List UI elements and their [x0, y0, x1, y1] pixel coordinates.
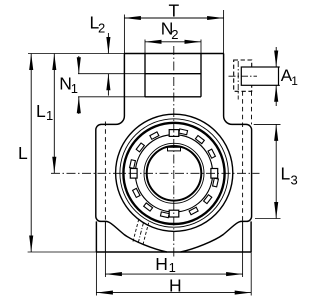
svg-text:2: 2	[98, 21, 105, 36]
svg-text:1: 1	[46, 108, 53, 123]
svg-text:1: 1	[169, 260, 176, 275]
svg-text:L: L	[36, 101, 46, 121]
svg-text:1: 1	[71, 81, 78, 96]
svg-text:3: 3	[291, 173, 298, 188]
svg-text:2: 2	[171, 27, 178, 42]
svg-text:H: H	[155, 254, 168, 274]
svg-text:L: L	[281, 164, 291, 184]
svg-text:L: L	[18, 143, 28, 163]
svg-text:1: 1	[291, 74, 298, 88]
svg-text:T: T	[169, 1, 180, 21]
svg-text:H: H	[169, 275, 182, 295]
